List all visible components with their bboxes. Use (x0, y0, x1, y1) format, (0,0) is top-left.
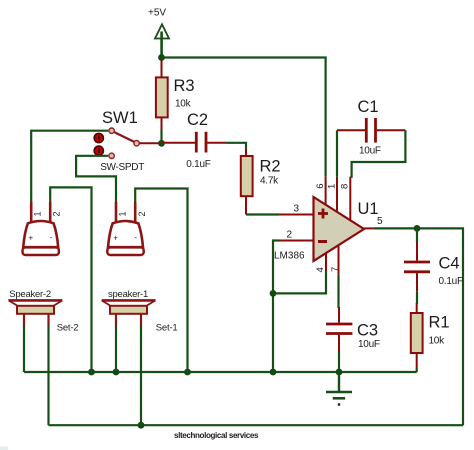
svg-text:1: 1 (33, 211, 43, 216)
resistor R1 (411, 303, 450, 368)
terminal throw1 (109, 128, 114, 133)
pin 3 stub (279, 214, 314, 216)
node rail1 sp1pin2 (184, 369, 191, 376)
node rail2 icon1 right (138, 422, 145, 429)
wire icon1 right pin to rail2 (140, 326, 142, 425)
svg-text:C2: C2 (187, 111, 208, 129)
pin 5 stub (364, 227, 373, 229)
wire icon1 left pin to rail1 (115, 326, 117, 372)
svg-text:speaker-1: speaker-1 (108, 289, 148, 300)
svg-text:C4: C4 (439, 255, 460, 273)
node pin2 net junction (270, 290, 277, 297)
wire output rail2 (49, 424, 464, 426)
wire R1 to rail1 (416, 368, 418, 372)
svg-text:1: 1 (327, 184, 338, 189)
pin 7 stub (338, 246, 340, 275)
svg-text:R2: R2 (260, 158, 281, 176)
svg-text:SW1: SW1 (102, 109, 138, 127)
node switch common junction (158, 140, 165, 147)
svg-text:+5V: +5V (148, 8, 166, 19)
svg-text:1: 1 (117, 211, 127, 216)
svg-text:6: 6 (315, 184, 326, 189)
wire pin1 up to C1 (336, 130, 338, 177)
capacitor C3 (326, 307, 380, 351)
wire junction to C4 (416, 228, 418, 243)
svg-text:2: 2 (52, 211, 62, 216)
svg-text:-: - (134, 233, 137, 242)
plus mark (318, 209, 328, 219)
svg-text:+: + (113, 234, 118, 243)
resistor R3 (156, 59, 195, 143)
power arrow symbol (155, 24, 169, 57)
node output C4 junction (414, 225, 421, 232)
wire C4 to R1 (416, 292, 418, 304)
wire speaker LS2 pin2 to rail1 (50, 187, 91, 372)
wire pin2 pin4 ground net (273, 241, 279, 373)
svg-text:10k: 10k (429, 336, 446, 347)
capacitor C2 (162, 111, 226, 170)
pin 6 stub (325, 177, 327, 206)
switch lever (115, 132, 135, 142)
svg-text:Speaker-2: Speaker-2 (9, 289, 51, 300)
svg-text:8: 8 (340, 184, 351, 189)
svg-text:sltechnological services: sltechnological services (174, 431, 259, 440)
capacitor C1 (337, 98, 405, 177)
svg-text:C3: C3 (357, 322, 378, 340)
svg-text:Set-1: Set-1 (156, 322, 178, 333)
actuator dot lower (94, 146, 103, 155)
svg-text:R3: R3 (174, 77, 195, 95)
terminal throw2 (109, 153, 114, 158)
pin 4 stub (325, 253, 327, 271)
op-amp U1 (274, 177, 383, 275)
resistor R2 (241, 150, 281, 215)
svg-text:R1: R1 (429, 314, 450, 332)
speaker icon speaker-1 (102, 289, 178, 334)
node rail1 pin2 net (270, 369, 277, 376)
svg-text:SW-SPDT: SW-SPDT (100, 162, 144, 173)
switch SW1 (94, 109, 161, 173)
actuator dot upper (94, 133, 103, 142)
minus mark (318, 240, 327, 243)
speaker icon Speaker-2 (8, 289, 78, 334)
wire switch throw1 to speaker2 (31, 131, 108, 204)
svg-text:4: 4 (315, 267, 326, 272)
svg-text:10uF: 10uF (359, 146, 381, 157)
node rail1 icon1 left (113, 369, 120, 376)
svg-text:0.1uF: 0.1uF (186, 159, 210, 170)
svg-text:+: + (29, 234, 34, 243)
wire pin7 to C3 (337, 275, 339, 308)
svg-text:2: 2 (287, 230, 293, 241)
pin 1 stub (336, 177, 338, 213)
node rail1 sp2pin2 (88, 369, 95, 376)
wire C2 to R2 (226, 143, 247, 151)
speaker LS1 bell (107, 202, 147, 255)
corner artifact (0, 447, 8, 450)
triangle body (314, 197, 365, 261)
speaker LS2 bell (23, 202, 62, 255)
wire pivot to node (140, 142, 162, 144)
svg-text:2: 2 (137, 211, 147, 216)
svg-text:7: 7 (330, 267, 341, 272)
wire speaker LS1 pin2 to rail1 (135, 189, 187, 373)
svg-text:C1: C1 (358, 98, 379, 116)
svg-text:10k: 10k (175, 98, 192, 109)
svg-text:-: - (50, 233, 53, 242)
node rail1 ground (336, 369, 343, 376)
ground (326, 372, 352, 406)
wire R2 to pin3 (246, 213, 279, 215)
wire C3 to rail1 (338, 351, 340, 372)
terminal common pivot (134, 141, 139, 146)
svg-text:4.7k: 4.7k (260, 176, 279, 187)
svg-text:U1: U1 (358, 200, 379, 218)
node +5V junction (158, 54, 165, 61)
wire C1 right loop to pin8 (350, 130, 405, 177)
wire icon2 right pin to rail2 (47, 326, 49, 425)
wire output pin5 line (373, 228, 463, 425)
svg-text:10uF: 10uF (358, 339, 380, 350)
wire ground rail1 (24, 371, 417, 373)
svg-text:3: 3 (294, 204, 300, 215)
wire switch throw2 to speaker1 (76, 156, 116, 203)
capacitor C4 (404, 242, 463, 292)
pin 2 stub (279, 240, 314, 242)
svg-text:LM386: LM386 (274, 251, 305, 262)
svg-text:Set-2: Set-2 (57, 323, 79, 334)
pin 8 stub (349, 177, 351, 221)
svg-text:0.1uF: 0.1uF (439, 276, 463, 287)
wire +5V rail to pin6 (162, 58, 326, 177)
wire icon2 left pin to rail1 (23, 326, 25, 372)
